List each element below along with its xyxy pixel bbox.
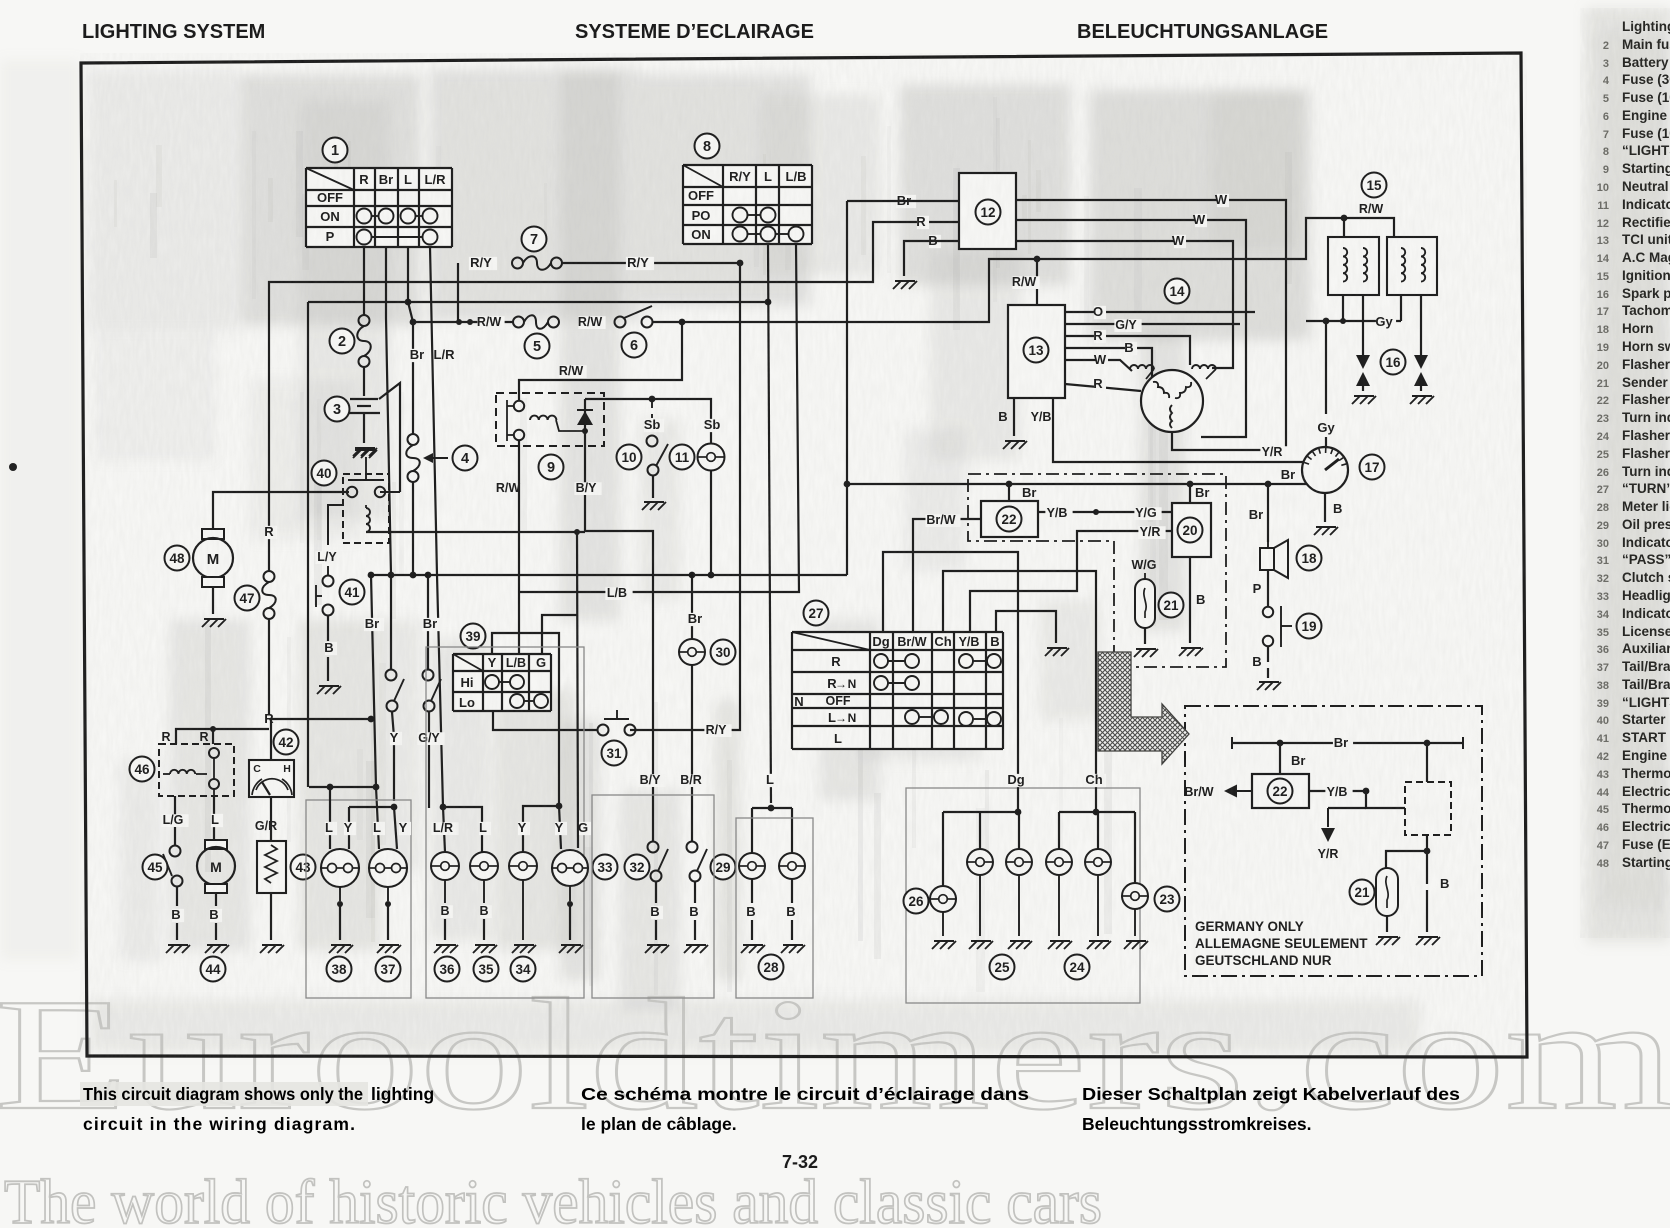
node lamp 38 tap (327, 784, 334, 791)
ref label (32) (625, 855, 650, 880)
ref label (35) (474, 957, 499, 982)
node Br main feed (410, 572, 417, 579)
node Dg join (1015, 809, 1022, 816)
ref label (22) (997, 507, 1022, 532)
wire L column down (407, 247, 409, 302)
turn lamp (23) (1122, 883, 1148, 909)
wire relay 40 to battery (380, 491, 400, 493)
node R/W at ignition coils (1341, 215, 1348, 222)
node lamp 30 tap (689, 572, 696, 579)
ignition coil (15) right (1387, 237, 1437, 295)
wire R/Y long drop to PASS switch (630, 263, 740, 730)
ground (1003, 441, 1027, 449)
ground (1410, 396, 1434, 404)
wire L/R to auxiliary lamps (440, 804, 447, 811)
ignition coil (15) left (1328, 237, 1379, 295)
wire tail feed crossbar (309, 786, 376, 788)
headlight lamp 21 (Germany) (1376, 868, 1398, 916)
ground (1352, 396, 1376, 404)
ref label (47) (235, 586, 260, 611)
wire L/G to switch 45 (174, 796, 176, 845)
ref label (13) (1024, 338, 1049, 363)
node L-column junction (405, 299, 412, 306)
wire Y/R from flasher relay (970, 531, 1172, 632)
ref label (46) (130, 757, 155, 782)
ref label (29) (711, 855, 736, 880)
wire W phase 1 (1016, 200, 1286, 450)
wire Br main riser (846, 201, 848, 575)
enclosure turn lamps (906, 788, 1140, 1003)
flasher relay (20) (1189, 484, 1191, 503)
wire turn switch B to ground (996, 611, 1056, 643)
wire Y jog to meter lamps (492, 633, 559, 803)
ref label (39) (461, 624, 486, 649)
ground (1045, 648, 1069, 656)
wire TCI R output (1065, 336, 1190, 365)
svg-text:BELEUCHTUNGSANLAGE: BELEUCHTUNGSANLAGE (1077, 21, 1328, 43)
ref label (10) (617, 445, 642, 470)
Y/R arrow down (1328, 807, 1366, 809)
ground (202, 619, 226, 627)
ref label (9) (539, 455, 564, 480)
indicator lamp at (11) (698, 444, 725, 471)
ground (353, 450, 377, 458)
wire L to motor 44 (213, 796, 215, 840)
wire meter 42 feed (271, 719, 371, 760)
svg-text:The world of historic vehicles: The world of historic vehicles and class… (4, 1166, 1102, 1228)
wire TCI B output (1065, 348, 1152, 377)
ref label (38) (327, 957, 352, 982)
svg-text:7-32: 7-32 (782, 1152, 818, 1172)
node R/W tap (410, 319, 417, 326)
wire R/Y riser (457, 263, 459, 322)
rectifier box (12) (959, 173, 1016, 249)
wire PASS switch to dimmer Y (493, 711, 597, 730)
ref label (45) (143, 855, 168, 880)
wire R/W drop to relay 9 (519, 322, 682, 400)
ground (1416, 937, 1440, 945)
wire R input of rectifier (269, 222, 959, 571)
wire Dg to left turn lamps (883, 552, 1018, 812)
ref label (7) (522, 227, 547, 252)
tail lamp (29) left (739, 853, 765, 879)
ground (893, 281, 917, 289)
node diode output (582, 428, 588, 434)
wire TCI W output (1065, 360, 1132, 371)
wire Sb to starter switch (651, 399, 653, 408)
node Br branch 2 (388, 572, 395, 579)
wire relay 40 contact to motor (213, 492, 349, 529)
ref label (23) (1155, 887, 1180, 912)
ground (645, 945, 669, 953)
ground (684, 945, 708, 953)
spark plug (16) left (1362, 295, 1364, 355)
horn switch (19) (1267, 570, 1269, 606)
ground (1314, 527, 1338, 535)
ref label (44) (201, 957, 226, 982)
wire W phase 3 (1016, 241, 1233, 368)
tail lamp (29) right (779, 853, 805, 879)
ground (1008, 941, 1032, 949)
node connector dots R/W (456, 319, 462, 325)
switch 10 (starter lockout) (647, 436, 658, 447)
wire Y/B out (1309, 790, 1366, 792)
ground (1087, 941, 1111, 949)
ref label (21) (1159, 593, 1184, 618)
wire fuse2 to battery (363, 367, 365, 396)
ground (473, 945, 497, 953)
ground (642, 502, 666, 510)
ref label (16) (1381, 350, 1406, 375)
ref label (30) (711, 640, 736, 665)
fuse 7 (469, 257, 497, 270)
ground (205, 945, 229, 953)
svg-text:Beleuchtungsstromkreises.: Beleuchtungsstromkreises. (1082, 1114, 1312, 1134)
auxiliary lamp (36) (431, 852, 459, 880)
ground (434, 945, 458, 953)
switch 41 (starter button) (315, 551, 342, 564)
ground (1124, 941, 1148, 949)
node Br at horn (1265, 481, 1272, 488)
ref label (1) (323, 138, 348, 163)
enclosure headlight cluster (426, 647, 584, 998)
ref label (14) (1165, 279, 1190, 304)
front brake switch (386, 670, 397, 681)
ink speck (9, 463, 17, 471)
dimmer switch table (39) (453, 654, 551, 711)
wire rear brake switch branch G/Y (427, 575, 429, 669)
ref label (22) (1268, 779, 1293, 804)
wire L feed to tail lamps (768, 244, 771, 803)
lighting switch table (8) (683, 165, 812, 244)
svg-text:Ce schéma montre le circuit d’: Ce schéma montre le circuit d’éclairage … (581, 1084, 1029, 1104)
wire R/W to TCI and coils (652, 218, 1394, 322)
node R/Y junction (737, 260, 744, 267)
wire Y crossbar (349, 806, 394, 808)
magneto winding bumps left (1130, 365, 1154, 369)
meter 42 (temp gauge) (249, 760, 294, 797)
tachometer (17) (1302, 447, 1348, 493)
svg-text:Dieser Schaltplan zeigt Kabelv: Dieser Schaltplan zeigt Kabelverlauf des (1082, 1084, 1460, 1104)
ground (741, 945, 765, 953)
svg-text:SYSTEME D’ECLAIRAGE: SYSTEME D’ECLAIRAGE (575, 21, 814, 43)
LIGHTS indicator lamp (30) (679, 639, 705, 665)
wire TCI Y/B output to tachometer (1053, 398, 1304, 462)
A.C. magneto (14) (1141, 370, 1203, 432)
wire Y to meter lamp 34 (556, 803, 563, 810)
electric fan relay (46) (159, 744, 234, 796)
wire Br branch to tail lamps (371, 575, 379, 849)
wire flasher relay B ground (1189, 557, 1191, 643)
ref label (5) (525, 334, 550, 359)
wire Y to indicator lamp 33 (559, 806, 561, 849)
enclosure switch cluster (592, 795, 714, 998)
PASS switch (31) (598, 725, 609, 736)
electric fan motor (44) (205, 840, 227, 849)
wire tach B ground (1324, 493, 1326, 522)
headlight indicator lamp (33) (552, 850, 588, 886)
ref label (12) (976, 200, 1001, 225)
Germany-only box (dash-dot) (1185, 706, 1482, 976)
starting circuit cut-off relay (9) (496, 393, 604, 446)
fuse 5 (513, 317, 524, 328)
ref label (25) (990, 955, 1015, 980)
wire Ch to right turn lamps (943, 571, 1096, 812)
ref label (43) (291, 855, 316, 880)
node R/W to TCI (1034, 256, 1041, 263)
neutral-ish switch right (687, 842, 698, 853)
reserve lighting unit (dashed) (1405, 782, 1451, 835)
left turn crossbar (943, 811, 1019, 813)
ref label (33) (593, 855, 618, 880)
node Br at flasher relay (1187, 481, 1194, 488)
wire Y/B - Y/G to flasher relay (1038, 511, 1172, 513)
fuse 4 (408, 434, 419, 445)
wire Br feed from rectifier (847, 200, 959, 202)
ref label (4) (453, 446, 478, 471)
enclosure tail/brake lamps (306, 800, 411, 998)
ref label (48) (165, 546, 190, 571)
TCI unit box (13) (1008, 305, 1065, 398)
node Br branch 1 (368, 572, 375, 579)
ref label (34) (511, 957, 536, 982)
turn flasher lamps (24) (1046, 849, 1072, 875)
rear brake switch (423, 670, 434, 681)
svg-text:le plan de câblage.: le plan de câblage. (581, 1114, 737, 1134)
node Br branch 3 (425, 572, 432, 579)
node lamp 37 tap (373, 784, 380, 791)
ref label (37) (376, 957, 401, 982)
wire Sb to pilot lamps (585, 399, 711, 444)
svg-text:LIGHTING SYSTEM: LIGHTING SYSTEM (82, 21, 265, 43)
flasher cancelling unit (22) (1008, 484, 1010, 501)
thermo switch (45) (170, 846, 181, 857)
wire W phase 2 (1016, 220, 1246, 437)
node Y/B connector (1093, 509, 1099, 515)
turn flasher lamps (25) (967, 849, 993, 875)
wire Br/W to turn switch (913, 519, 981, 632)
wire TCI O output (1065, 311, 1255, 313)
ground (329, 945, 353, 953)
wire G staircase (reserve) (577, 531, 578, 848)
ref label (27) (804, 601, 829, 626)
wire Br drop to 22b (1279, 743, 1281, 774)
fuse 47 (265, 526, 277, 539)
wire Gy to tachometer (1325, 321, 1327, 414)
ref label (42) (274, 730, 299, 755)
tail/brake lamp (37) (369, 849, 407, 887)
ref arrow for (4) (428, 457, 448, 459)
wire TCI R2 output (1065, 384, 1141, 391)
ref label (11) (670, 445, 695, 470)
node Sb junction (649, 396, 656, 403)
wire brake switch branch Y (390, 575, 392, 669)
turn switch table (27) (792, 632, 1003, 749)
svg-text:lighting: lighting (371, 1084, 434, 1104)
ground (1179, 648, 1203, 656)
wire relay output to headlight table (518, 441, 520, 654)
wire B/Y from relay 9 (584, 431, 586, 531)
node Ch join (1093, 809, 1100, 816)
fuse 2 (main fuse) (359, 315, 370, 326)
ref label (21) (1350, 880, 1375, 905)
node R/W corner (679, 319, 686, 326)
node Br to dashed unit (1424, 740, 1431, 747)
magneto winding bumps right (1192, 365, 1216, 369)
turn lamp (26) (930, 886, 956, 912)
wire Gy line (1306, 320, 1401, 322)
wire coil primary feed (1343, 218, 1345, 237)
ref label (19) (1297, 614, 1322, 639)
caption english (80, 1082, 368, 1106)
wire Br bus (Germany) (1232, 742, 1463, 744)
wire R column to fuse 2 (363, 247, 365, 315)
ground (1048, 941, 1072, 949)
node tail lamp split (768, 805, 775, 812)
ref label (26) (904, 889, 929, 914)
wire TCI G/Y output (1065, 323, 1240, 325)
ref label (20) (1178, 518, 1203, 543)
ground (1257, 682, 1281, 690)
flasher cancelling unit 22 (Germany) (1252, 774, 1309, 808)
node relay 46 feed (210, 726, 216, 732)
ref label (36) (435, 957, 460, 982)
right turn crossbar (1059, 811, 1135, 813)
wire TCI B to ground (1013, 398, 1015, 436)
ref label (40) (312, 461, 337, 486)
ref label (3) (325, 397, 350, 422)
wire long L feed x=308 (307, 302, 309, 787)
ground (559, 945, 583, 953)
ground (932, 941, 956, 949)
wire main feed via fuse 4 (408, 302, 413, 434)
battery (3) (350, 398, 378, 400)
node Y split (391, 804, 398, 811)
clutch switch (32) (648, 842, 659, 853)
starting motor (48) (202, 529, 224, 539)
node lamp 11 tap (708, 572, 715, 579)
scan noise overlay (0, 0, 1, 1)
wire R/Y to table 8 (562, 262, 740, 264)
wire Br to tach (847, 483, 1307, 485)
relay 40 (headlight relay) (343, 474, 389, 543)
Br/W arrow out (1228, 790, 1252, 792)
horn (18) (1267, 484, 1269, 542)
wire relay 40 coil out (366, 531, 585, 533)
spark plug (16) right (1420, 295, 1422, 355)
ref label (28) (759, 955, 784, 980)
wire lamp 11 down (710, 471, 712, 575)
wire horizontal feed y=302 (308, 301, 768, 303)
node Y/B junction (Germany) (1363, 788, 1370, 795)
wire Br column down (386, 247, 391, 575)
wire R/W into TCI (1036, 259, 1038, 305)
switch 6 (engine stop) (615, 317, 626, 328)
wire unit to lamp and ground (1426, 835, 1428, 851)
ref label (31) (602, 741, 627, 766)
ref label (2) (330, 329, 355, 354)
ground (1376, 937, 1400, 945)
ground (969, 941, 993, 949)
wire B/Y to clutch switch (585, 531, 653, 841)
wire rectifier B to ground (904, 241, 959, 276)
ground (512, 945, 536, 953)
ground (317, 686, 341, 694)
wire Br distribution line (371, 574, 847, 576)
ref label (8) (695, 134, 720, 159)
wire R/W run (413, 321, 513, 323)
node Br to unit 22b (1277, 740, 1284, 747)
license lamp (35) (470, 852, 498, 880)
resistor 43 (sender) (254, 820, 281, 833)
ground (1134, 649, 1158, 657)
ground (781, 945, 805, 953)
meter lamp (34) (509, 852, 537, 880)
ground (166, 945, 190, 953)
ground (260, 945, 284, 953)
battery bracket wire to relay 40 (379, 383, 400, 492)
node Br at flasher cancel (844, 481, 851, 488)
ref label (17) (1360, 455, 1385, 480)
ref label (18) (1297, 546, 1322, 571)
node Gy junction (1323, 318, 1330, 325)
diagram border frame (81, 53, 1527, 1057)
wire lamp 30 chain / B-R (691, 575, 693, 639)
ref label (24) (1065, 955, 1090, 980)
ground (353, 448, 377, 456)
svg-text:circuit in the wiring diagram.: circuit in the wiring diagram. (83, 1114, 355, 1134)
main switch table (1) (306, 168, 452, 247)
enclosure tail lamp 29 (736, 818, 813, 998)
wire L/R column down to lamp 36 (430, 247, 443, 807)
wire to reserve unit (1366, 791, 1405, 808)
ref label (15) (1362, 173, 1387, 198)
ref label (6) (622, 333, 647, 358)
tail/brake lamp (38) (321, 849, 359, 887)
ground (377, 945, 401, 953)
svg-text:This circuit diagram shows onl: This circuit diagram shows only the (83, 1084, 363, 1104)
meter assembly boundary (dash-dot) (968, 474, 1226, 667)
ref label (41) (340, 580, 365, 605)
diode in relay 9 (577, 411, 593, 425)
wire L/B from lighting switch (518, 244, 799, 592)
